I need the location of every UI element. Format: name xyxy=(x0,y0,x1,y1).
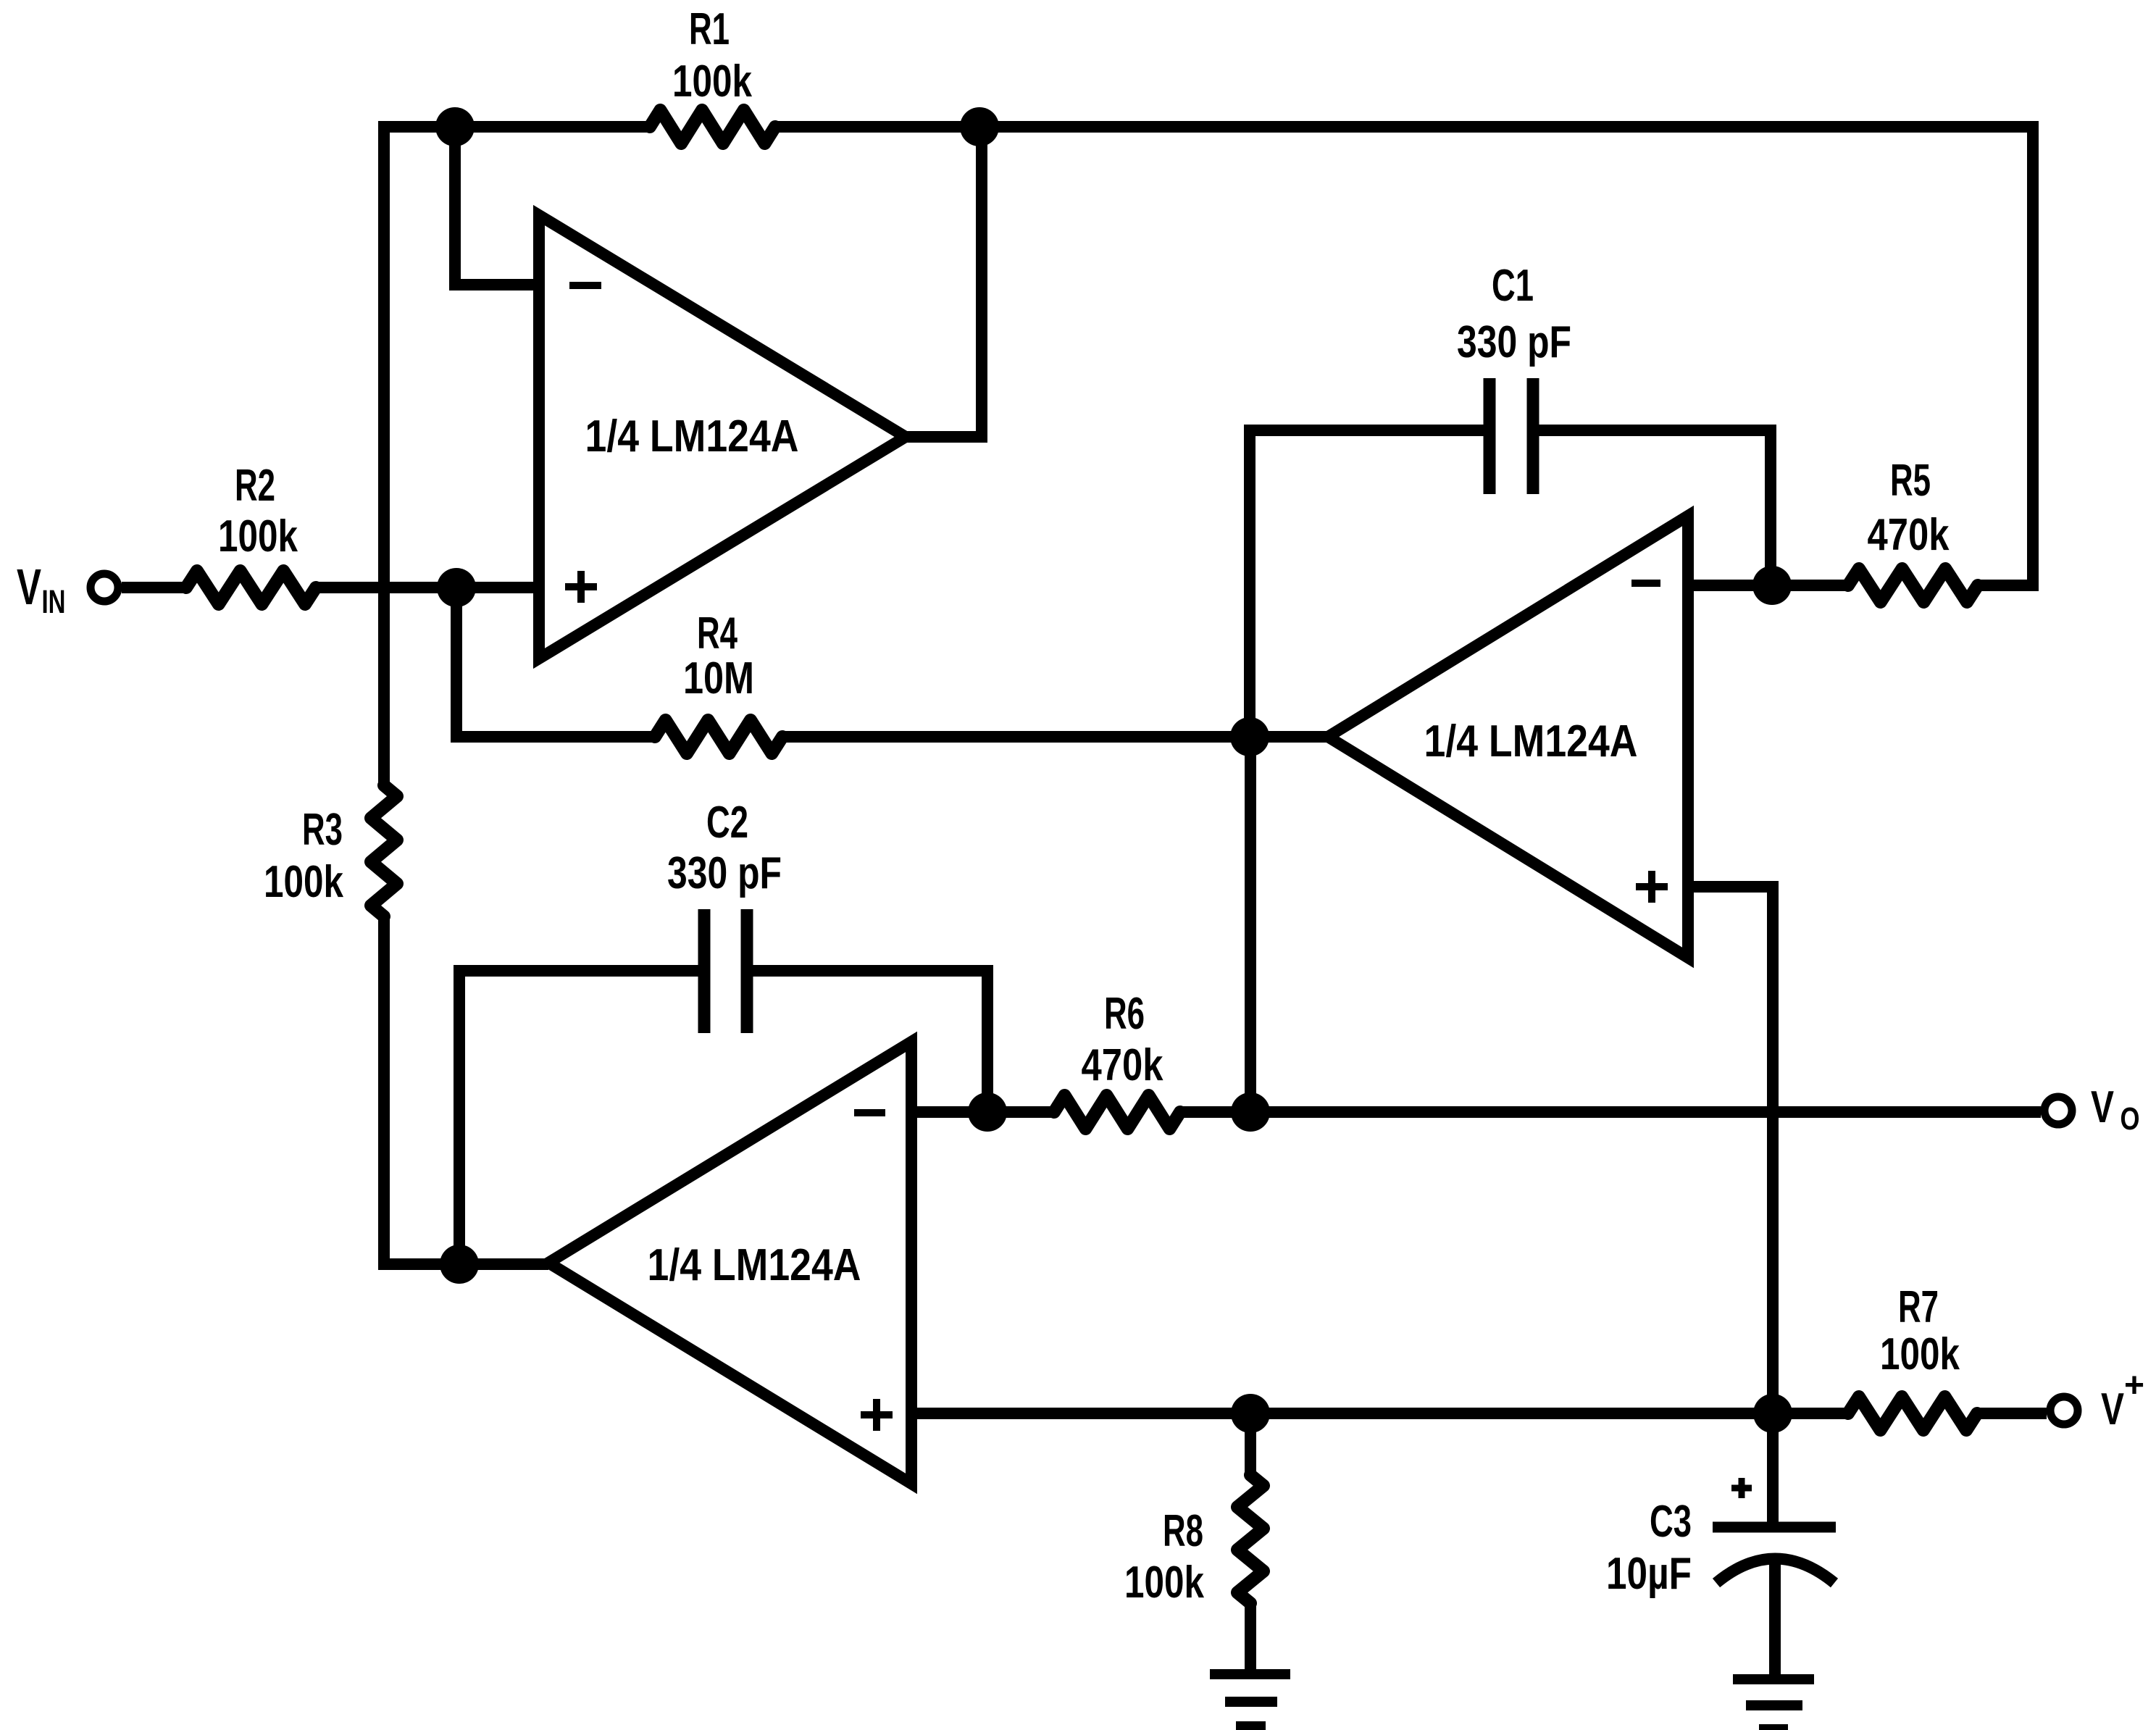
svg-text:R5: R5 xyxy=(1890,456,1931,506)
svg-text:C2: C2 xyxy=(706,798,748,848)
terminal V+ circle xyxy=(2050,1397,2078,1424)
junction node: U2 inverting / C1 / R5 xyxy=(1752,566,1792,605)
svg-text:R8: R8 xyxy=(1163,1506,1203,1556)
junction node: R8 / V+ row xyxy=(1231,1394,1270,1433)
svg-text:10µF: 10µF xyxy=(1606,1549,1692,1599)
svg-text:470k: 470k xyxy=(1082,1040,1163,1090)
svg-text:10M: 10M xyxy=(683,653,754,703)
wire: R6 right to VO terminal xyxy=(1180,1106,2041,1118)
svg-text:1/4 LM124A: 1/4 LM124A xyxy=(585,411,799,461)
wire: top rail right of R1 down to R5 xyxy=(775,127,2033,585)
wire: R4 right to U2 apex xyxy=(782,731,1328,743)
resistor R4 10M xyxy=(655,720,782,753)
wire: U2 apex node down to VO row xyxy=(1245,737,1256,1112)
wire: C2 row left segment and left leg down to U3 apex node xyxy=(459,971,704,1264)
svg-text:R4: R4 xyxy=(697,609,738,659)
capacitor C3 10uF electrolytic: straight plate and curved plate xyxy=(1713,1527,1836,1583)
op-amp U2 1/4 LM124A (points left) xyxy=(1328,516,1688,958)
junction node: U3 inverting / C2 / R6 xyxy=(968,1092,1007,1132)
junction node: R4 / C1 / U2 output xyxy=(1230,717,1269,756)
terminal VO output circle xyxy=(2044,1097,2072,1124)
wire: U1 output up to top rail xyxy=(906,127,982,437)
svg-text:1/4 LM124A: 1/4 LM124A xyxy=(648,1240,861,1290)
svg-text:C3: C3 xyxy=(1650,1497,1692,1547)
wire: C1 left leg from R4 node up and right to C1 left plate xyxy=(1250,430,1489,737)
svg-text:100k: 100k xyxy=(264,857,343,907)
wire: U1 inverting input jog from top rail xyxy=(455,127,539,285)
ground symbol below R8 xyxy=(1210,1674,1290,1726)
wire: R7 right to V+ terminal xyxy=(1977,1408,2047,1419)
wire: U2 inverting input stub to node xyxy=(1688,580,1848,591)
U2 plus symbol xyxy=(1636,871,1668,903)
resistor R7 100k xyxy=(1848,1397,1977,1430)
op-amp U1 1/4 LM124A (points right) xyxy=(539,215,906,659)
svg-text:R7: R7 xyxy=(1898,1282,1939,1332)
svg-text:IN: IN xyxy=(42,583,66,620)
wire: C3 bottom plate to ground xyxy=(1769,1558,1781,1674)
junction node: R6 / VO xyxy=(1231,1092,1270,1132)
junction node: top rail / U1 output xyxy=(960,107,999,146)
wire: U3 non-inverting input row to R7 left xyxy=(911,1408,1848,1419)
capacitor C2 330pF plates xyxy=(704,909,747,1033)
wire: R8 node down to zigzag xyxy=(1245,1413,1256,1475)
U3 minus symbol xyxy=(854,1109,885,1116)
wire: C1 right plate to corner down to U2 inverting node xyxy=(1533,430,1771,587)
resistor R3 100k (vertical) xyxy=(371,785,397,916)
svg-text:V: V xyxy=(2091,1082,2114,1132)
svg-text:R3: R3 xyxy=(302,805,343,855)
wire: VIN terminal to R2 xyxy=(122,582,186,593)
svg-text:R2: R2 xyxy=(235,461,275,511)
junction node: top rail / U1 inverting jog xyxy=(435,107,475,146)
wire: R2 to node A to U1 non-inverting input xyxy=(316,582,539,593)
capacitor C1 330pF plates xyxy=(1489,378,1533,494)
svg-text:V: V xyxy=(17,559,41,615)
U1 minus symbol xyxy=(569,282,601,289)
svg-text:100k: 100k xyxy=(672,57,752,106)
junction node: C3 / R7 / U2 + drop xyxy=(1753,1394,1792,1433)
resistor R8 100k (vertical) xyxy=(1237,1475,1263,1603)
wire: U3 inverting input stub to R6 left xyxy=(911,1106,1054,1118)
U2 minus symbol xyxy=(1631,580,1660,587)
wire: node A drop to R4 left xyxy=(456,588,655,737)
wire: C2 right plate to corner down to U3 inverting node xyxy=(747,971,987,1112)
svg-text:100k: 100k xyxy=(1880,1329,1960,1379)
U1 plus symbol xyxy=(565,571,597,603)
junction node: R3 / C2 / U3 output xyxy=(440,1245,479,1284)
svg-text:+: + xyxy=(2124,1366,2144,1405)
svg-text:100k: 100k xyxy=(218,511,298,561)
svg-text:330 pF: 330 pF xyxy=(1457,317,1571,367)
terminal VIN input circle xyxy=(91,574,118,601)
U3 plus symbol xyxy=(861,1399,893,1431)
wire: top rail from R3 column up, across to right edge, down to R5 right end xyxy=(384,127,650,785)
svg-text:R6: R6 xyxy=(1104,989,1145,1039)
junction node A: R2 / U1 + / R4 xyxy=(437,568,476,607)
resistor R2 100k (VIN input) xyxy=(186,571,316,604)
svg-text:470k: 470k xyxy=(1868,510,1950,560)
resistor R1 100k (top rail) xyxy=(650,110,775,143)
op-amp U3 1/4 LM124A (points left) xyxy=(548,1042,911,1484)
svg-text:100k: 100k xyxy=(1124,1558,1204,1608)
svg-text:R1: R1 xyxy=(689,4,730,54)
wire: U2 non-inverting input stub and long drop to V+ node xyxy=(1688,887,1773,1413)
wire: C3 node down to top plate xyxy=(1767,1413,1779,1526)
resistor R5 470k xyxy=(1848,569,1978,602)
resistor R6 470k xyxy=(1054,1095,1180,1129)
svg-text:C1: C1 xyxy=(1492,261,1534,311)
svg-text:V: V xyxy=(2101,1384,2124,1434)
svg-text:330 pF: 330 pF xyxy=(667,848,782,898)
wire: R8 bottom to ground xyxy=(1245,1603,1256,1674)
C3 polarity plus sign xyxy=(1731,1478,1752,1498)
wire: R3 bottom to U3 apex row xyxy=(384,916,548,1264)
svg-text:1/4 LM124A: 1/4 LM124A xyxy=(1424,716,1638,766)
svg-text:O: O xyxy=(2121,1101,2140,1137)
ground symbol below C3 xyxy=(1733,1679,1814,1729)
